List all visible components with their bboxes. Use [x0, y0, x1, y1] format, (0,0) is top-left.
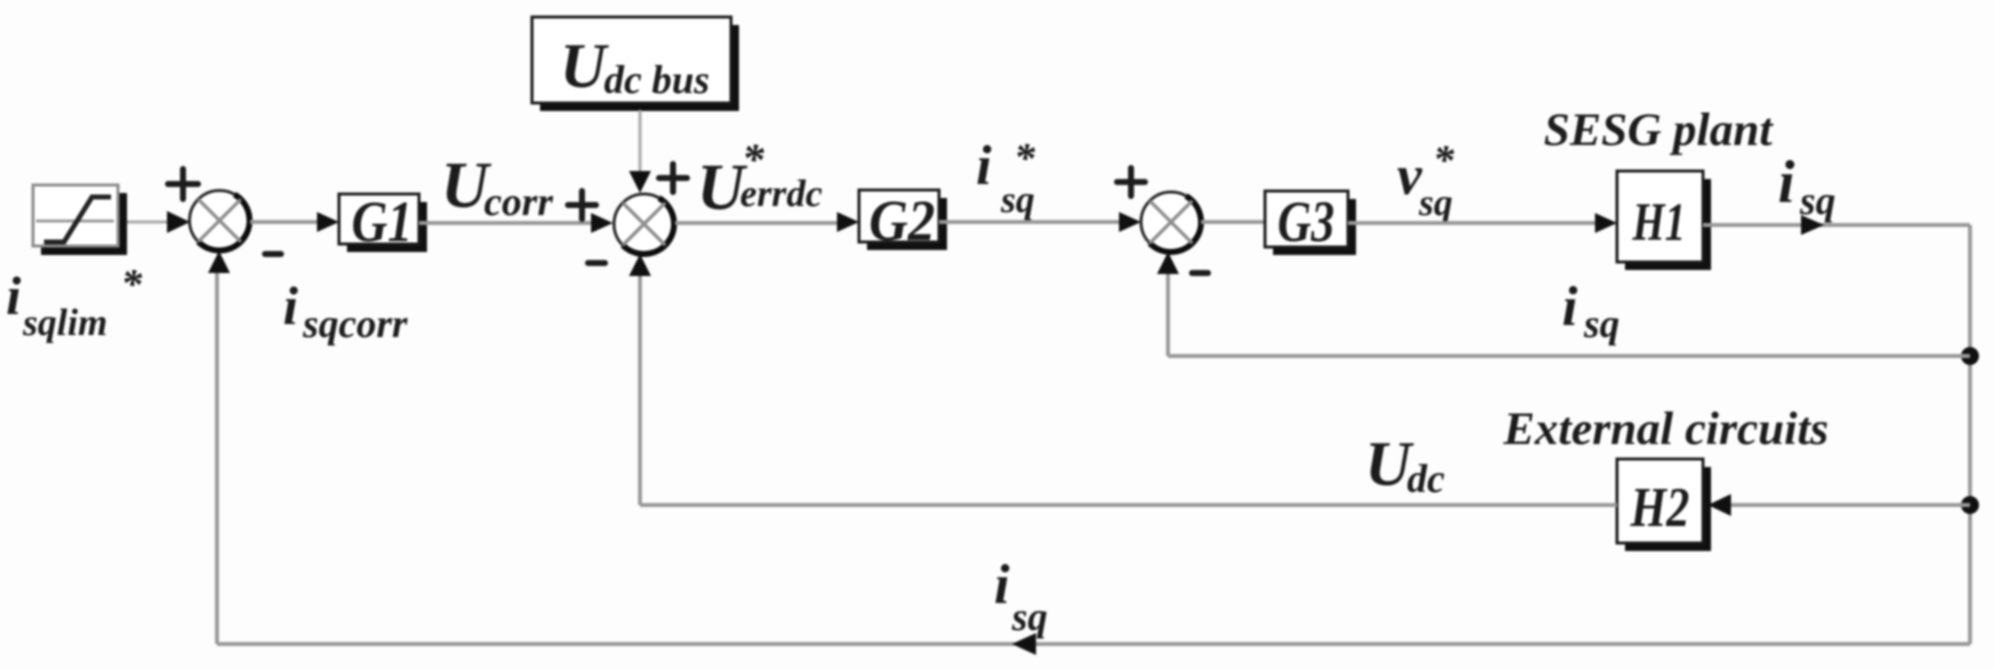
label i_sq bottom	[994, 554, 1048, 639]
svg-text:*: *	[121, 262, 143, 308]
block U_dc_bus	[532, 17, 739, 111]
label i_sqcorr	[283, 276, 408, 346]
svg-text:H1: H1	[1632, 192, 1686, 252]
minus sign at S1	[265, 251, 281, 257]
wire G1 to summer S2	[419, 221, 596, 225]
svg-text:sqcorr: sqcorr	[302, 301, 408, 346]
arrowhead into H1	[1595, 213, 1617, 233]
label U_corr	[441, 149, 553, 224]
block H2	[1617, 459, 1711, 551]
svg-text:sq: sq	[1011, 594, 1048, 639]
svg-text:i: i	[6, 266, 21, 326]
summing junction S2	[614, 194, 674, 254]
svg-text:dc: dc	[1407, 456, 1445, 501]
summing junction S1	[190, 191, 250, 251]
plus sign at S3	[1117, 168, 1145, 196]
arrowhead into G2	[837, 212, 859, 232]
arrowhead into S2	[591, 213, 613, 233]
svg-text:sq: sq	[1418, 182, 1453, 224]
wire U_dc from node to H2	[1720, 503, 1970, 507]
svg-text:*: *	[1433, 138, 1455, 184]
arrowhead up into S1 bottom	[208, 251, 230, 273]
svg-text:*: *	[1014, 136, 1036, 182]
wire G2 to summer S3	[939, 220, 1125, 224]
wire i_sq feedback vertical to S3	[1166, 268, 1170, 356]
limiter block (saturation nonlinearity)	[33, 185, 127, 255]
wire bottom feedback horizontal	[217, 642, 1970, 646]
svg-text:sq: sq	[1583, 301, 1620, 346]
wire S3 to G3	[1201, 220, 1265, 224]
svg-text:U: U	[560, 30, 609, 101]
arrowhead up into S3 bottom	[1157, 252, 1179, 274]
block G3	[1265, 189, 1356, 255]
junction node dot (i_sq tap)	[1961, 347, 1979, 365]
plus sign at S1	[168, 169, 198, 199]
wire S2 to G2	[675, 221, 842, 225]
label i_sq feedback	[1562, 276, 1620, 346]
svg-text:SESG plant: SESG plant	[1544, 104, 1775, 156]
label U*_errdc	[697, 135, 822, 224]
minus sign at S2	[588, 260, 605, 266]
wire U_dc vertical up to S2	[638, 272, 642, 505]
arrowhead down into S2 top	[629, 171, 651, 193]
svg-text:G2: G2	[869, 188, 935, 253]
junction node dot (U_dc tap)	[1961, 496, 1979, 514]
plus sign at S2 top right	[659, 164, 687, 192]
svg-text:dc bus: dc bus	[604, 57, 710, 102]
svg-text:i: i	[283, 276, 298, 336]
wire i_sq feedback horizontal	[1168, 354, 1970, 358]
label U_dc	[1365, 428, 1445, 501]
minus sign at S3	[1192, 270, 1208, 276]
block H1	[1617, 171, 1711, 270]
wire S1 to G1	[250, 220, 322, 224]
svg-text:sq: sq	[1799, 178, 1836, 223]
arrowhead into G1	[317, 212, 339, 232]
wire U_dc from H2 to left corner	[640, 503, 1617, 507]
wire U_dc_bus down to S2	[639, 110, 642, 178]
label i*_sq	[976, 135, 1036, 221]
arrowhead into S1	[167, 211, 190, 233]
wire left vertical up to S1	[215, 270, 219, 644]
svg-text:i: i	[976, 135, 992, 197]
arrowhead on output wire	[1801, 215, 1824, 235]
summing junction S3	[1141, 192, 1201, 252]
label i_sqlim*	[6, 262, 143, 344]
svg-text:i: i	[1562, 276, 1578, 338]
block G2	[859, 188, 947, 253]
arrowhead into S3	[1119, 212, 1141, 232]
svg-text:i: i	[994, 554, 1010, 616]
label i_sq output	[1778, 149, 1836, 223]
svg-text:G1: G1	[352, 189, 413, 254]
wire right vertical	[1968, 225, 1972, 644]
wire H1 output to right corner	[1703, 223, 1970, 227]
svg-text:H2: H2	[1630, 477, 1690, 539]
svg-text:i: i	[1778, 149, 1795, 215]
svg-text:errdc: errdc	[740, 173, 822, 215]
svg-text:sqlim: sqlim	[22, 302, 107, 344]
label v*_sq	[1397, 138, 1455, 224]
svg-text:G3: G3	[1278, 189, 1335, 254]
arrowhead up into S2 bottom	[629, 254, 651, 276]
wire G3 to H1	[1348, 221, 1600, 225]
svg-text:sq: sq	[1000, 179, 1035, 221]
svg-text:External circuits: External circuits	[1502, 403, 1828, 455]
wire limiter to summer S1	[127, 221, 170, 224]
plus sign before S2	[568, 191, 596, 219]
arrowhead into H2 right side	[1708, 494, 1731, 516]
block G1	[339, 189, 427, 254]
svg-text:corr: corr	[484, 179, 553, 224]
arrowhead on bottom wire pointing left	[1012, 633, 1036, 655]
